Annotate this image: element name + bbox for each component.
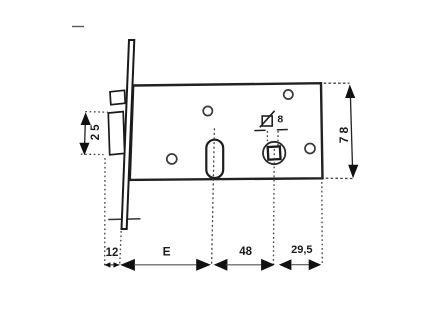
arrow left 12 <box>104 262 110 267</box>
diagonal slash of square symbol <box>260 111 275 128</box>
dimension line 78 <box>350 88 353 174</box>
screw hole top right <box>284 90 293 99</box>
oval cylinder slot <box>206 140 223 178</box>
dim line 48 <box>226 264 262 266</box>
arrow right 29,5 <box>309 259 322 270</box>
dashed extension bottom of 78 dim <box>326 177 353 179</box>
square symbol of label 8 <box>262 116 272 126</box>
stray printed dash top-left <box>72 26 84 28</box>
extension line from body right edge to bottom <box>321 182 324 265</box>
svg-text:29,5: 29,5 <box>291 244 312 256</box>
screw hole right middle <box>305 144 315 154</box>
deadbolt box (25 mm) <box>108 112 124 155</box>
arrow down 78 <box>348 165 358 179</box>
svg-text:8: 8 <box>277 113 283 125</box>
right bracket line under label 8 <box>277 129 288 131</box>
dim line 29,5 <box>291 264 309 266</box>
svg-text:12: 12 <box>106 247 119 259</box>
arrow right 12 <box>114 262 120 267</box>
centre line through spindle hole <box>272 149 275 265</box>
lock body case outline <box>130 83 323 180</box>
faceplate front strip <box>122 40 135 229</box>
arrow right 48 <box>261 259 275 271</box>
screw hole lower left <box>167 154 177 164</box>
dashed extension bottom of 25 dim <box>81 153 104 156</box>
extension line from deadbolt box left <box>104 158 106 265</box>
arrow left 29,5 <box>279 259 292 270</box>
svg-text:E: E <box>163 244 171 258</box>
screw hole top middle <box>203 106 212 115</box>
extension dash right of square hole <box>277 131 279 146</box>
spindle hole circle <box>263 142 285 164</box>
arrow left E <box>120 259 135 271</box>
arrow up 25 <box>81 112 91 125</box>
dimension line 25 <box>84 116 85 152</box>
arrow down 25 <box>79 143 89 156</box>
arrow right E <box>196 259 211 271</box>
spindle square 8mm <box>268 146 281 159</box>
centre line through oval slot <box>212 128 215 265</box>
small latch box upper left <box>110 90 125 104</box>
dim line E <box>134 264 198 266</box>
left bracket line under label 8 <box>254 129 265 131</box>
svg-text:48: 48 <box>239 246 252 258</box>
dashed extension top of 25 dim <box>85 111 108 114</box>
tick line across faceplate bottom <box>108 218 140 221</box>
svg-text:25: 25 <box>90 122 102 141</box>
dim line 12 <box>104 264 119 266</box>
arrow left 48 <box>214 259 228 271</box>
extension dash left of square hole <box>266 131 268 146</box>
svg-text:78: 78 <box>337 124 351 143</box>
dashed extension top of 78 dim <box>324 82 350 84</box>
arrow up 78 <box>345 85 355 99</box>
extension line from faceplate bottom <box>120 231 122 264</box>
